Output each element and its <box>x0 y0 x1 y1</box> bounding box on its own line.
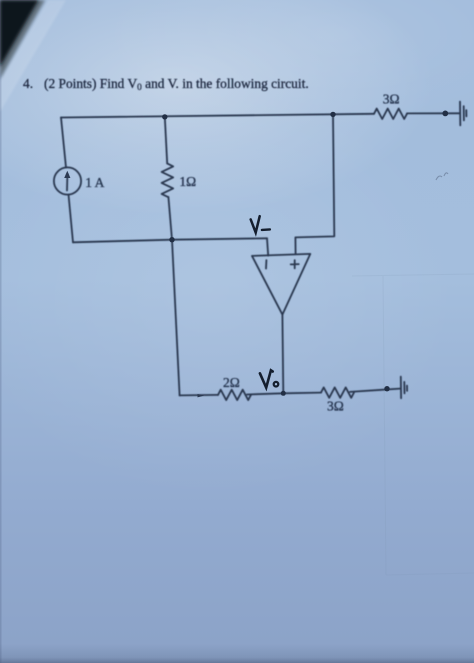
wire from top node down to plus branch <box>295 114 334 254</box>
node V- junction <box>169 237 174 242</box>
svg-text:1 A: 1 A <box>85 175 104 190</box>
faint bleed-through lines <box>352 274 474 575</box>
wire bottom rail left <box>180 394 218 397</box>
wire Vo node to 3ohm <box>283 392 321 395</box>
svg-text:2Ω: 2Ω <box>223 375 240 390</box>
svg-text:3Ω: 3Ω <box>383 91 400 106</box>
resistor R 2ohm <box>218 390 251 400</box>
node at bottom-right ground <box>384 386 389 391</box>
node at 1ohm top <box>162 114 167 119</box>
wire left branch down to current source <box>61 118 66 168</box>
ground (top right, sideways) <box>459 102 461 126</box>
wire node to bottom rail <box>172 240 180 396</box>
value labels <box>85 91 399 413</box>
circuit drawing <box>54 102 467 400</box>
resistor R 1ohm <box>162 163 174 197</box>
current direction arrowhead on bottom wire <box>198 394 205 397</box>
resistor R 3ohm (top) <box>374 109 407 119</box>
handwritten label V- (node V minus) <box>251 216 270 232</box>
op-amp minus pin mark <box>265 260 267 268</box>
svg-text:3Ω: 3Ω <box>327 399 344 414</box>
wire 1ohm bottom lead <box>168 197 172 240</box>
wire into minus input <box>267 238 268 255</box>
problem statement text <box>23 76 309 93</box>
current source I1 1A <box>54 167 81 194</box>
node at plus branch top <box>330 112 335 117</box>
svg-text:(2 Points) Find V0 and V. in t: (2 Points) Find V0 and V. in the followi… <box>44 76 309 93</box>
wire 1ohm top lead <box>165 117 167 163</box>
op-amp U1 <box>252 254 310 315</box>
photo corner (dark background at top-left) <box>0 0 66 112</box>
wire 3ohm to ground <box>350 389 400 392</box>
handwritten label Vo (node Vo) <box>260 370 278 387</box>
node Vo <box>281 391 286 396</box>
wire bottom node rail <box>73 238 267 242</box>
faint pencil tick <box>436 173 448 180</box>
op-amp plus pin mark <box>291 260 299 268</box>
wire current source bottom <box>69 195 74 243</box>
current source arrowhead <box>64 171 70 178</box>
wire op-amp output <box>281 315 284 394</box>
svg-text:1Ω: 1Ω <box>179 174 196 189</box>
ground (bottom right, sideways) <box>400 377 402 399</box>
node at top-right ground <box>442 111 448 117</box>
wire top rail right <box>407 112 459 114</box>
svg-text:4.: 4. <box>23 76 33 91</box>
wire 2ohm to Vo node <box>247 393 283 394</box>
wire top rail left <box>61 114 374 118</box>
resistor R 3ohm (bottom) <box>321 387 354 397</box>
